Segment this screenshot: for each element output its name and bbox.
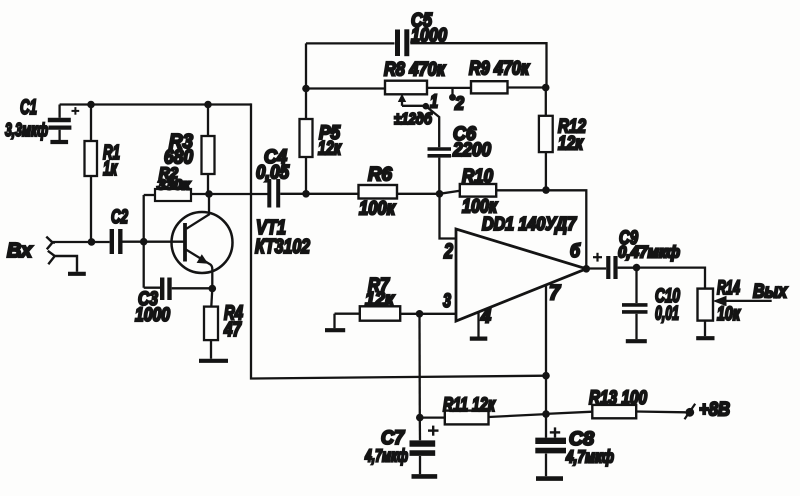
wire: pin 7 vertical [545,285,547,414]
svg-text:47: 47 [223,319,241,341]
svg-text:1к: 1к [103,158,118,180]
node: bias C7/R11 [416,414,424,422]
resistor R9 [471,81,508,93]
svg-text:1: 1 [430,92,438,112]
capacitor C10 [622,268,648,340]
C7 plus sign [428,426,439,436]
svg-text:1000: 1000 [411,26,447,47]
node: output [583,265,591,273]
svg-text:0,05: 0,05 [256,163,289,184]
wire: R8-R9 line [306,88,546,89]
svg-text:Вх: Вх [7,240,33,262]
ground (below C1) [50,140,68,144]
wire: pin 3 line [420,313,457,315]
switch contact 1 [423,103,430,110]
wire: bias node to R11 [420,416,445,418]
wire: C8 node to R13 [546,412,592,414]
svg-text:R8 470к: R8 470к [384,60,446,81]
switch contact 2 [449,94,456,101]
wire: output to C9 [586,267,606,269]
svg-text:100к: 100к [359,199,396,220]
node: input/R1 [88,238,96,246]
svg-text:КТ3102: КТ3102 [255,236,310,258]
capacitor C9 [608,256,636,279]
svg-text:4,7мкф: 4,7мкф [364,446,408,466]
svg-text:0,47мкф: 0,47мкф [618,244,680,262]
ground (below R4) [199,359,228,363]
C8 plus sign [550,427,560,437]
svg-text:R9 470к: R9 470к [469,59,530,80]
resistor R7 [335,306,420,328]
svg-text:12к: 12к [365,290,395,311]
C9 plus sign [593,253,602,262]
ground (input jack) [68,272,86,276]
svg-text:12к: 12к [318,139,342,160]
R8 wiper arrow [398,94,425,106]
svg-text:R11 12к: R11 12к [443,395,496,416]
wire: node to R14 [637,268,706,289]
node: R9/R12 top [542,84,550,92]
switch arm to C6 [428,108,440,148]
wire: C4 to R6 [280,193,358,195]
node: rail/R3 [204,101,212,109]
svg-text:4,7мкф: 4,7мкф [565,447,614,467]
svg-text:R6: R6 [368,165,392,186]
svg-text:C1: C1 [20,96,37,119]
terminal +8В [685,404,696,419]
node: R12 bottom [542,186,550,194]
transistor VT1 [172,194,233,289]
resistor R4 [204,289,218,359]
op-amp DD1 140УД7 [456,229,586,321]
node: pin7/feedback line [542,372,550,380]
R14 wiper arrow [713,296,772,306]
resistor R13 [592,405,636,418]
svg-text:2: 2 [454,94,464,114]
resistor R8 potentiometer [385,81,427,95]
wire: collector line R2/R3 junction to C4 [191,193,268,195]
svg-text:1000: 1000 [135,305,170,326]
wire: input line to C2 [52,241,109,243]
wire: C5 top rail [306,43,547,87]
resistor R1 [85,105,98,242]
svg-text:±12дб: ±12дб [394,111,433,128]
svg-text:R14: R14 [717,278,740,299]
capacitor C8 [535,414,566,476]
ground (R14) [696,336,714,340]
resistor R3 [202,105,215,195]
C1 plus sign [72,107,80,115]
capacitor C3 [144,278,213,301]
resistor R6 [359,185,398,199]
node: C8/R13/pin7 [542,410,550,418]
wire: R6 to R10 [397,191,460,194]
svg-text:7: 7 [549,282,561,305]
ground (pin 4) [470,337,488,341]
wire: R13 to +8V terminal [636,410,685,413]
resistor R14 [698,289,714,337]
capacitor C1 [48,105,72,141]
resistor R2 [144,189,191,201]
svg-text:12к: 12к [558,133,584,155]
resistor R12 [539,88,553,191]
node: R7/pin3 [416,310,424,318]
svg-text:Вых: Вых [753,282,788,303]
svg-text:+8В: +8В [699,400,730,421]
resistor R10 [460,184,496,197]
svg-text:DD1 140УД7: DD1 140УД7 [482,214,577,234]
wire: pin 2 stub [440,194,457,239]
svg-text:330к: 330к [157,178,191,194]
wire: feedback/supply vertical and bottom run to pin7 [251,103,546,378]
svg-text:C2: C2 [111,207,128,228]
ground (C7) [412,474,438,479]
node: rail/R1 [87,101,95,109]
node: C9/C10 [633,264,641,272]
svg-text:R13 100: R13 100 [589,388,647,409]
svg-text:3,3мкф: 3,3мкф [5,120,48,140]
capacitor C6 [428,149,452,194]
svg-text:4: 4 [480,307,491,328]
node: base/R2/C3 [140,238,148,246]
svg-text:R10: R10 [462,167,493,188]
capacitor C7 [410,418,436,475]
node: P5/R8 line [302,85,310,93]
node: P5 bottom [302,190,310,198]
resistor R11 [445,411,489,425]
input jack tip contact [46,237,55,250]
svg-text:3: 3 [443,291,451,312]
wire: C2 to base [123,241,184,243]
capacitor C2 [112,229,121,254]
svg-text:0,01: 0,01 [655,304,679,325]
input jack sleeve contact and ground lead [48,251,77,272]
ground (R7 left) [325,328,345,332]
wire: R11 to C8 node [489,414,547,417]
pin 4 lead [477,312,479,337]
resistor P5 [300,43,313,193]
node: emitter/C3/R4 [209,285,217,293]
switch contact 2 stub [451,88,453,95]
svg-text:10к: 10к [717,304,741,325]
ground (C8) [536,476,563,481]
wire: R2-C3 vertical [143,195,145,288]
svg-text:2200: 2200 [452,139,491,161]
capacitor C5 [398,29,407,56]
ground (C10) [626,339,647,343]
node: collector junction [205,190,213,198]
svg-text:б: б [570,241,581,261]
node: C6/R6/R10/pin2 [436,190,444,198]
wire: top supply rail [60,103,251,105]
wire: pin3 node down to bias node [418,314,421,418]
capacitor C4 [269,179,278,208]
wire: R10 to output vertical [496,190,586,268]
svg-text:2: 2 [443,240,453,263]
